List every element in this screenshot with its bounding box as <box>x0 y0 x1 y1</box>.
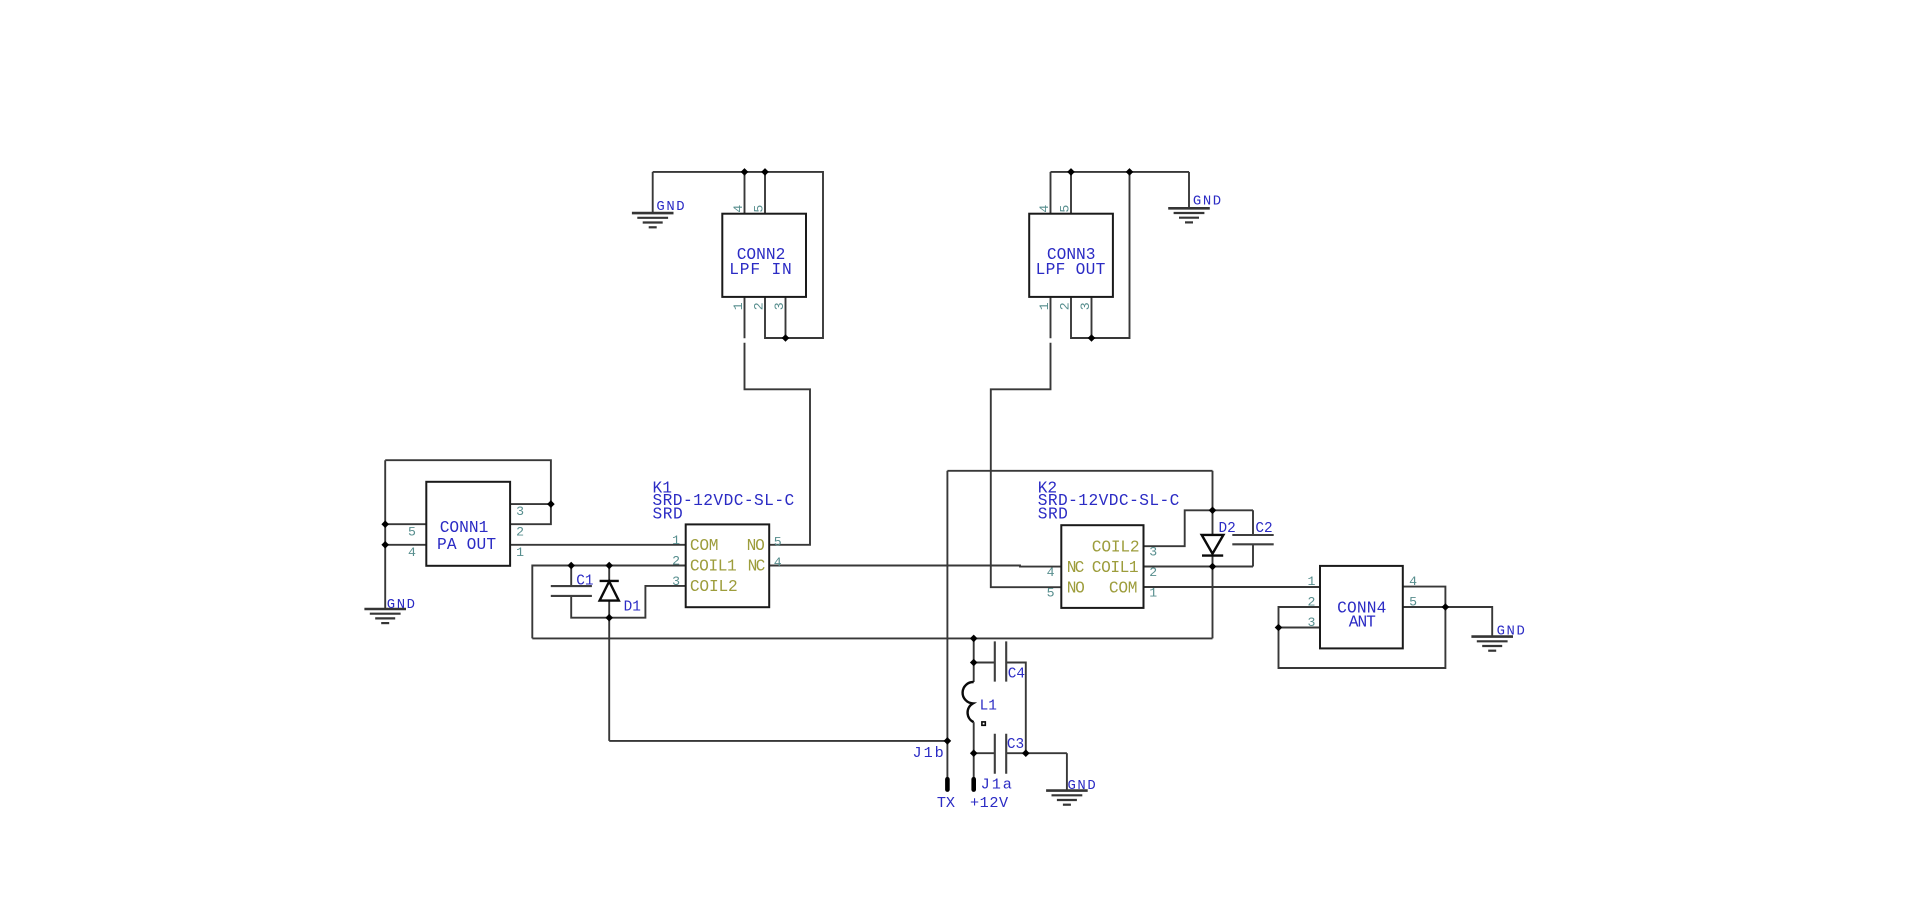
wire K2 pin1 COM to CONN4 pin1 <box>1144 586 1321 588</box>
connector CONN3 box <box>1029 214 1113 297</box>
wire CONN3 top bus to GND <box>1051 171 1190 173</box>
jumper pin J1a <box>973 753 975 777</box>
svg-text:3: 3 <box>772 302 787 310</box>
svg-text:1: 1 <box>1307 574 1315 589</box>
svg-text:J1a: J1a <box>981 776 1012 794</box>
wire K1 pin4 NC to K2 pin4 NC <box>769 566 1061 567</box>
svg-text:GND: GND <box>1497 623 1525 639</box>
capacitor C3 <box>974 752 1067 754</box>
svg-text:5: 5 <box>1057 205 1072 213</box>
svg-text:COIL2: COIL2 <box>690 578 738 596</box>
wire CONN4 pin5 stub to GND <box>1403 607 1492 637</box>
wire CONN2 pin5 stub <box>764 172 766 214</box>
wire CONN4 left loop pins 2,3 to bottom <box>1279 587 1446 668</box>
ground GND (CONN4) <box>1471 637 1513 651</box>
wire CONN3 pin5 stub <box>1070 172 1072 214</box>
svg-text:1: 1 <box>516 545 524 560</box>
relay K1 box <box>686 524 770 607</box>
diode D2 <box>1202 535 1224 554</box>
wire K1 pin3 COIL2 link to D1 bottom <box>609 586 686 618</box>
svg-text:GND: GND <box>1068 778 1096 794</box>
svg-text:2: 2 <box>1149 565 1157 580</box>
wire K2 pin2 COIL1 to D2 bottom <box>1144 566 1254 568</box>
svg-text:NC: NC <box>1067 559 1085 577</box>
svg-text:C2: C2 <box>1255 521 1272 537</box>
wire D1 anode to J1b junction <box>609 740 947 742</box>
svg-text:4: 4 <box>774 555 782 570</box>
svg-text:1: 1 <box>1149 586 1157 601</box>
svg-text:GND: GND <box>387 597 415 613</box>
svg-text:COIL1: COIL1 <box>690 558 737 576</box>
junction dots CONN4 <box>1275 624 1283 632</box>
wire CONN1 pin3 stub <box>510 503 551 505</box>
svg-text:NO: NO <box>1067 579 1085 597</box>
wire CONN2 top bus (GND to right loop) <box>653 172 823 338</box>
svg-text:GND: GND <box>656 199 684 215</box>
junction dots CONN2 <box>741 168 749 176</box>
svg-text:3: 3 <box>672 574 680 589</box>
svg-text:LPF OUT: LPF OUT <box>1036 261 1106 279</box>
svg-text:COM: COM <box>1109 579 1138 597</box>
svg-text:2: 2 <box>672 554 680 569</box>
wire CONN3 pin1 to K2 NO pin5 <box>991 297 1062 587</box>
svg-text:LPF IN: LPF IN <box>729 261 792 279</box>
diode D1 <box>608 566 610 741</box>
svg-text:COIL2: COIL2 <box>1092 538 1140 556</box>
connector CONN2 box <box>722 214 806 297</box>
svg-text:4: 4 <box>408 545 416 560</box>
svg-text:COIL1: COIL1 <box>1092 559 1139 577</box>
wire TX top rail <box>947 470 1212 472</box>
ground GND (C3) <box>1066 753 1068 790</box>
jumper pin J1b <box>946 741 948 778</box>
wire CONN1 top loop to pins 3 and 2 <box>385 460 551 524</box>
wire K1 pin2 COIL1 row to bus corner <box>532 566 685 639</box>
wire CONN3 right loop <box>1071 172 1130 338</box>
svg-text:1: 1 <box>731 302 746 310</box>
svg-text:4: 4 <box>731 205 746 213</box>
svg-text:D1: D1 <box>624 600 641 616</box>
inductor L1 <box>963 682 974 722</box>
svg-text:3: 3 <box>1149 545 1157 560</box>
svg-text:J1b: J1b <box>913 744 944 762</box>
ground GND (CONN3) <box>1188 172 1190 208</box>
svg-text:NC: NC <box>748 558 766 576</box>
svg-text:COM: COM <box>690 537 719 555</box>
svg-text:5: 5 <box>1409 595 1417 610</box>
wire CONN1 pin4 stub <box>385 544 426 546</box>
wire CONN1 left vertical to GND <box>384 460 386 609</box>
svg-text:NO: NO <box>747 537 765 555</box>
svg-text:C4: C4 <box>1008 666 1025 682</box>
svg-text:PA OUT: PA OUT <box>437 536 496 554</box>
junction dots CONN1 <box>381 520 389 528</box>
junction dots K2/D2/C2 <box>1209 507 1217 515</box>
wire CONN1 pin1 to K1 COM pin1 <box>510 544 686 546</box>
svg-text:4: 4 <box>1047 565 1055 580</box>
svg-text:2: 2 <box>516 525 524 540</box>
ground GND (CONN2) <box>652 172 654 213</box>
svg-text:5: 5 <box>751 205 766 213</box>
svg-text:SRD: SRD <box>653 505 683 523</box>
svg-text:4: 4 <box>1409 574 1417 589</box>
svg-text:GND: GND <box>1193 193 1221 209</box>
svg-text:ANT: ANT <box>1349 614 1376 632</box>
wire CONN3 pin3 stub <box>1091 297 1093 338</box>
connector CONN4 box <box>1320 566 1403 649</box>
svg-text:2: 2 <box>751 302 766 310</box>
svg-text:1: 1 <box>1037 302 1052 310</box>
capacitor C2 <box>1252 510 1254 566</box>
wire CONN2 pin3 stub <box>785 297 787 338</box>
svg-text:+12V: +12V <box>970 794 1009 812</box>
relay K2 box <box>1061 525 1143 608</box>
svg-text:4: 4 <box>1037 205 1052 213</box>
wire CONN2 pin4 stub <box>744 172 746 214</box>
svg-text:SRD: SRD <box>1038 505 1068 523</box>
wire CONN1 pin5 stub <box>385 523 426 525</box>
wire TX left vertical to J1b <box>946 471 948 741</box>
svg-text:2: 2 <box>1307 595 1315 610</box>
wire CONN3 pin4 stub <box>1050 172 1052 214</box>
wire +12V bus (bottom) <box>532 637 1212 639</box>
capacitor C4 <box>974 663 1026 754</box>
svg-text:L1: L1 <box>980 698 997 714</box>
wire CONN2 pin1 to K1 NO pin5 <box>745 297 811 545</box>
svg-text:5: 5 <box>408 525 416 540</box>
junction dots K1/C1/D1 <box>567 562 575 570</box>
junction dots L1/C3/C4/J1 <box>970 635 978 643</box>
svg-text:3: 3 <box>1078 302 1093 310</box>
wire K2 pin3 COIL2 to D2 top <box>1144 510 1254 546</box>
junction dots CONN3 <box>1067 168 1075 176</box>
svg-text:3: 3 <box>1307 615 1315 630</box>
svg-text:C3: C3 <box>1007 737 1024 753</box>
svg-text:TX: TX <box>937 794 955 812</box>
ground GND (CONN1) <box>364 609 406 623</box>
wire L1 top tap from bus <box>973 638 975 682</box>
wire CONN4 pin3 stub <box>1279 627 1321 629</box>
capacitor C1 <box>571 566 609 618</box>
svg-text:3: 3 <box>516 504 524 519</box>
svg-text:CONN1: CONN1 <box>440 519 489 537</box>
wire K2 coil spine (right vertical) <box>1212 471 1214 639</box>
connector CONN1 box <box>426 482 510 566</box>
svg-text:1: 1 <box>672 533 680 548</box>
svg-text:2: 2 <box>1057 302 1072 310</box>
svg-text:C1: C1 <box>576 573 593 589</box>
svg-text:5: 5 <box>774 535 782 550</box>
svg-text:5: 5 <box>1047 586 1055 601</box>
